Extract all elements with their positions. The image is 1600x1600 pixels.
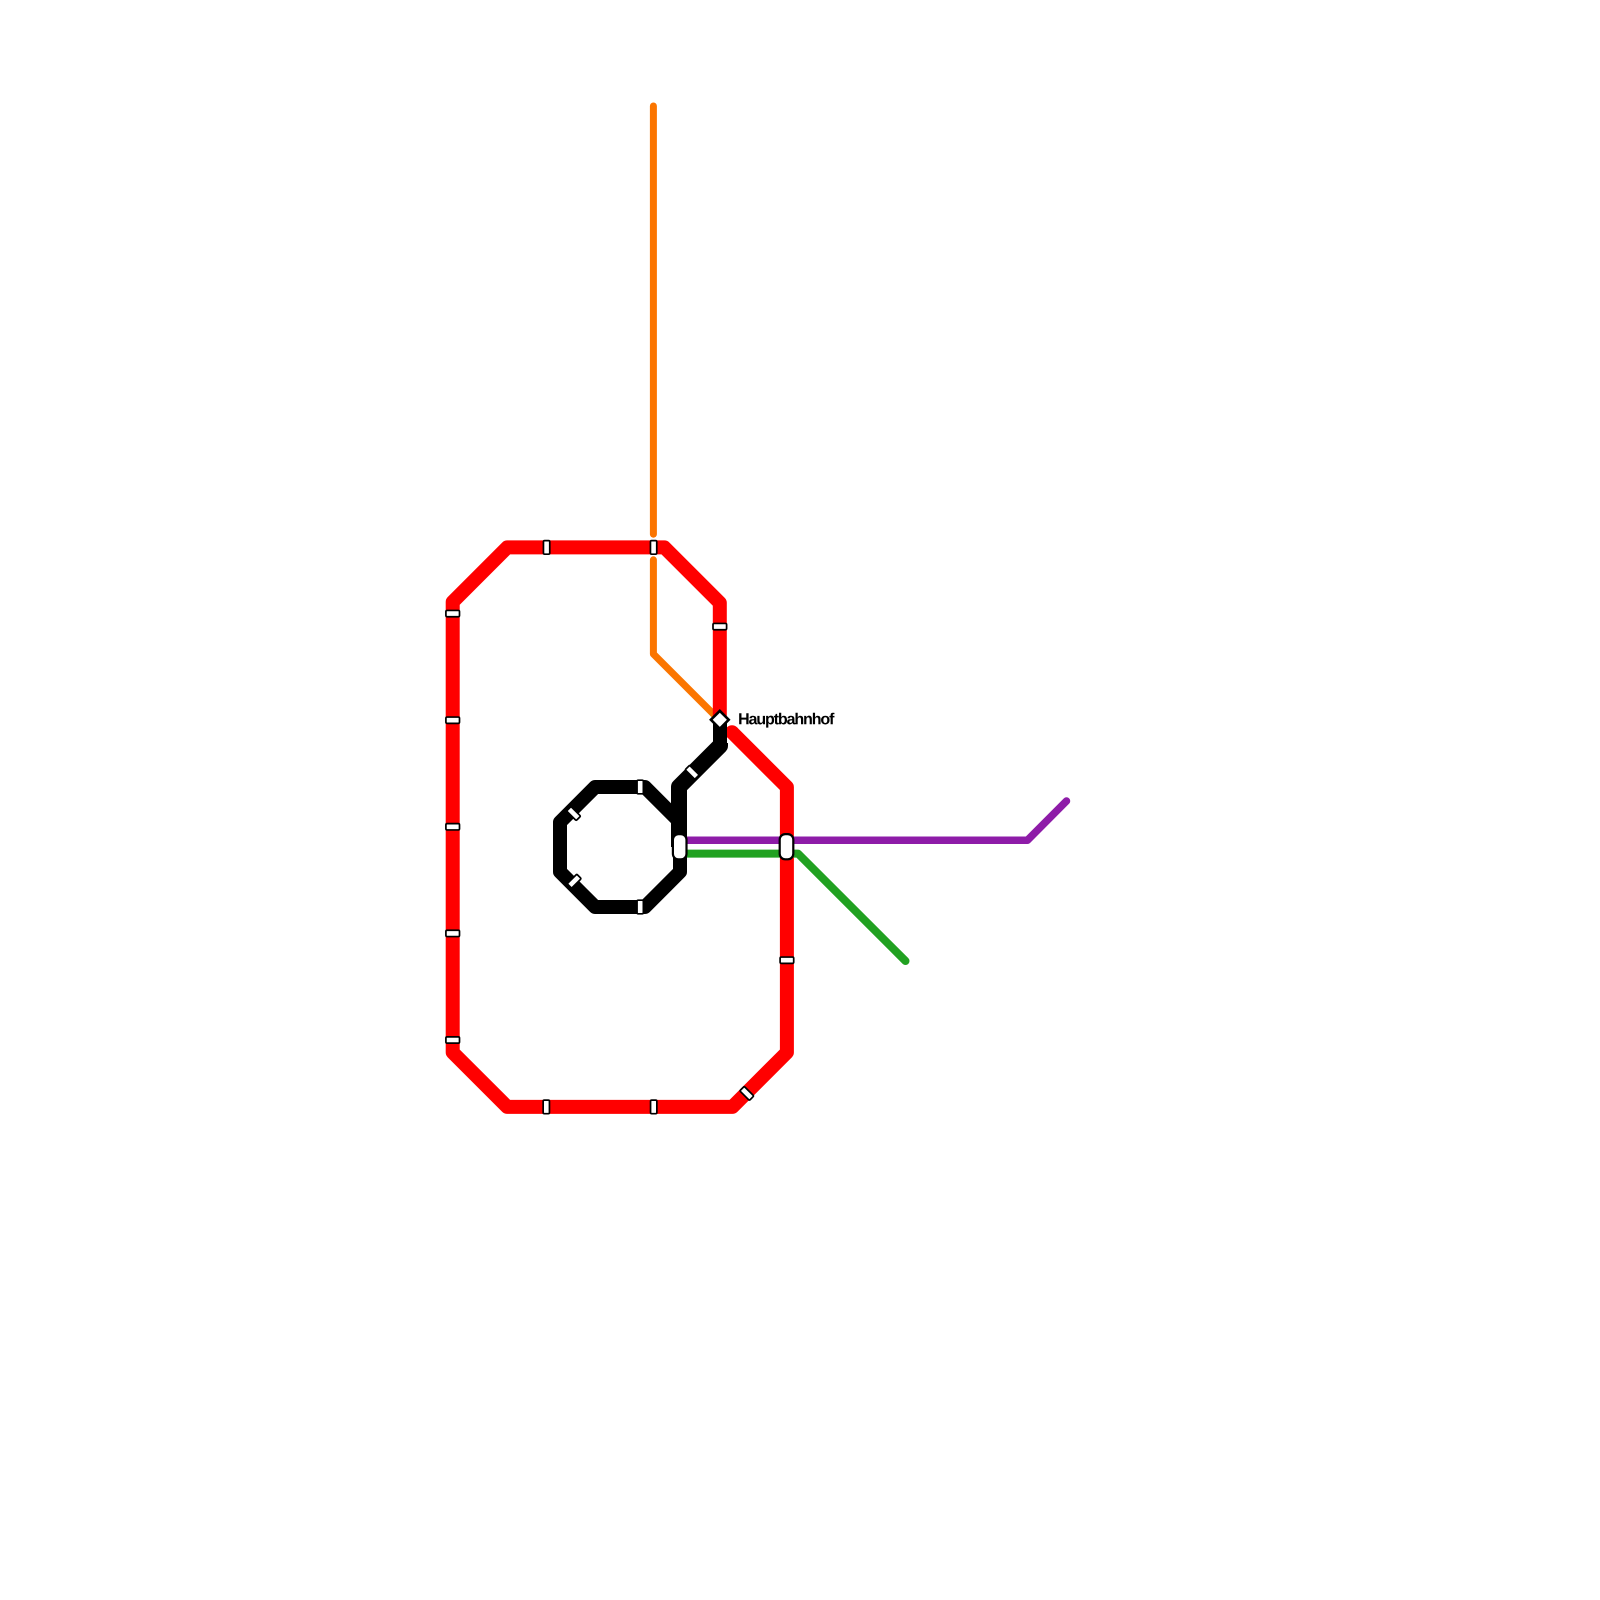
station tick red left 2 [446, 717, 460, 723]
station tick black spur [685, 765, 699, 779]
black circle line (octagon) [560, 787, 680, 907]
red line round cap at Hauptbahnhof diagonal [725, 725, 739, 739]
station tick red bottom 1 [543, 1100, 549, 1114]
station tick octagon top [637, 780, 643, 794]
station label Hauptbahnhof [739, 713, 834, 728]
black spur to Hauptbahnhof (upper stub at diamond) [713, 720, 727, 744]
orange line (lower segment to Hauptbahnhof) [653, 560, 714, 715]
purple line [687, 801, 1067, 840]
station tick red left 1 [446, 610, 460, 616]
station tick red lower right vertical [780, 957, 794, 963]
station tick red top 1 [543, 541, 549, 555]
orange line (upper segment, ends at red-line station crossing) [650, 106, 657, 534]
station tick red bottom-right diagonal [740, 1086, 754, 1100]
black spur to Hauptbahnhof (main) [679, 743, 720, 847]
station tick red bottom 2 [651, 1100, 657, 1114]
station tick octagon top-left diagonal [567, 807, 581, 821]
station tick octagon bottom-left diagonal [567, 874, 581, 888]
station tick red top 2 (orange crossing) [650, 541, 656, 555]
Hauptbahnhof diamond interchange [711, 711, 729, 729]
station tick red left 5 [446, 1037, 460, 1043]
interchange oval on red (red/purple/green) [780, 834, 794, 859]
red ring line [453, 547, 787, 1107]
station tick octagon bottom [637, 900, 643, 914]
station tick red upper right vertical [713, 623, 727, 629]
interchange oval on octagon (black/purple/green) [673, 834, 687, 859]
green line [687, 854, 906, 961]
station tick red left 4 [446, 930, 460, 936]
station tick red left 3 [446, 824, 460, 830]
